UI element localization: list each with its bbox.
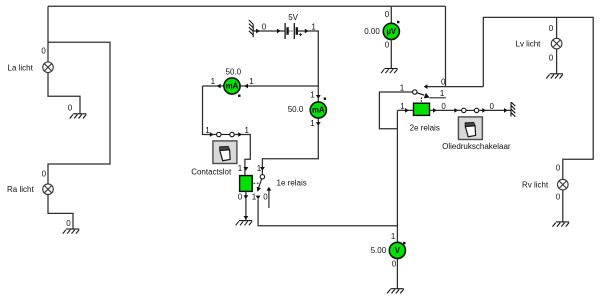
svg-text:5.00: 5.00 [371,246,387,255]
svg-text:0: 0 [41,47,46,56]
current arrow relay1 switch common [260,167,265,171]
wire to mA meter1 left [203,85,225,87]
oil switch contact left [462,108,466,112]
wire from rail down to lamp La [47,6,49,62]
svg-text:0: 0 [549,24,554,33]
icon Contactslot rocker switch [213,141,237,164]
ground under Rv licht [553,222,570,227]
svg-text:0: 0 [385,40,390,49]
svg-text:0: 0 [42,169,47,178]
current arrow relay1 coil bottom [244,195,249,199]
ground under voltmeter [387,289,404,294]
svg-text:0: 0 [392,259,397,268]
svg-text:1e relais: 1e relais [277,179,307,188]
current arrow mA meter1 left [217,84,221,89]
oil switch contact right [474,108,478,112]
relay1 coil-switch dashed link [253,182,260,184]
current arrow contactslot left [210,132,214,137]
wire meter1 right to battery node [240,85,318,87]
wire relay1 throw to voltmeter node [258,199,397,225]
svg-text:1: 1 [211,77,216,86]
oil switch closed bar [466,109,474,111]
svg-text:0: 0 [556,192,561,201]
current arrow meter2 top [316,95,321,99]
wire Rv licht to ground [562,190,564,222]
svg-text:Contactslot: Contactslot [191,167,232,176]
ground right of oil switch [511,102,515,117]
wire rail to uV meter [390,6,392,23]
svg-text:0.00: 0.00 [364,27,380,36]
svg-text:Lv licht: Lv licht [516,39,542,48]
current arrow at oil ground [504,108,508,113]
wire upper throw to right lamps rail [483,17,593,179]
pin arrow relay1 stub [267,187,272,191]
wire meter2 bottom to relay1 switch common [262,118,318,175]
icon Oliedrukschakelaar rocker switch [458,117,482,140]
current arrow at relay1 ground [244,216,249,220]
svg-text:0: 0 [262,22,267,31]
svg-text:1: 1 [400,102,405,111]
svg-text:1: 1 [311,22,316,31]
svg-text:0: 0 [549,53,554,62]
meter U4 voltmeter reading 5.00 [389,242,405,258]
current arrow oil switch left [454,108,458,113]
wire top rail down to relay2 upper throw [445,6,447,86]
wire La licht to ground [48,73,80,114]
svg-text:mA: mA [312,106,325,115]
svg-text:1: 1 [310,91,315,100]
wire relay2 coil to oil switch [430,109,462,111]
wire uV meter to ground [390,40,392,69]
terminal dot voltmeter [403,242,405,244]
svg-text:0: 0 [238,193,243,202]
svg-text:1: 1 [257,164,262,173]
relay 1e relais coil [240,176,253,192]
svg-text:1: 1 [205,126,210,135]
svg-text:V: V [395,246,401,255]
svg-text:µV: µV [386,27,396,36]
wire oil switch to ground [479,109,511,111]
ground under Lv licht [546,74,563,79]
svg-text:Ra licht: Ra licht [7,185,34,194]
wire node to voltmeter [396,110,398,242]
wire relay1 coil to ground [245,191,247,220]
current arrow oil switch right [482,108,486,113]
current arrow relay1 coil top [244,167,249,171]
current arrow at battery positive [305,29,309,34]
current arrow into battery wire [256,29,260,34]
wire top supply rail [48,5,446,7]
meter U2 milliammeter reading 50.0 [310,102,326,118]
contactslot switch closed bar [221,134,230,136]
relay2 coil-switch dashed link [420,97,422,103]
wire contactslot to relay1 coil [234,135,250,176]
ground at battery negative [249,20,253,37]
svg-text:1: 1 [391,232,396,241]
wire rail to Lv licht [556,17,558,38]
svg-text:1: 1 [252,193,257,202]
current arrow relay1 throw [256,196,261,200]
svg-text:mA: mA [226,82,239,91]
ground under La licht [70,114,87,119]
lamp Rv licht [558,179,569,190]
svg-text:0: 0 [68,103,73,112]
lamp Lv licht [551,38,562,49]
relay1 switch lever [259,179,262,188]
svg-text:Oliedrukschakelaar: Oliedrukschakelaar [442,142,511,151]
current arrow relay2 coil right [433,108,437,113]
relay2 upper throw line [426,86,483,88]
svg-text:1: 1 [249,77,254,86]
relay2 lower throw line [430,97,446,99]
terminal dot uV meter [397,21,399,23]
wire voltmeter to ground [396,258,398,288]
ground under Ra licht [63,229,80,234]
battery B1 5V [285,23,302,39]
svg-text:Rv licht: Rv licht [522,181,549,190]
wire Ra licht to ground [48,195,73,229]
wire meter1 down to contactslot switch [203,86,217,135]
current arrow contactslot right [238,132,242,137]
pin arrow relay2 upper throw [424,84,428,89]
contactslot switch contact right [230,132,234,136]
wire branch to Ra licht [48,42,110,184]
svg-text:La licht: La licht [8,63,34,72]
terminal dot meter2 [324,98,326,100]
terminal dot meter1 [238,95,240,97]
svg-text:1: 1 [245,126,250,135]
wire battery positive down to mA meter 2 [298,31,318,102]
wire node up to relay2 switch common [379,92,412,129]
svg-text:5V: 5V [288,13,298,22]
svg-text:0: 0 [441,102,446,111]
ground under relay1 coil [236,221,253,226]
relay2 switch pivot [413,90,417,94]
meter U3 microvolt meter reading 0.00 [383,23,399,39]
relay1 unused throw stub [268,190,270,208]
svg-text:0: 0 [66,219,71,228]
relay1 switch pivot [260,175,264,179]
svg-text:50.0: 50.0 [288,105,304,114]
meter U1 milliammeter reading 50.0 [224,78,240,94]
lamp Ra licht [43,184,54,195]
svg-text:0: 0 [385,10,390,19]
current arrow meter2 bottom [316,122,321,126]
current arrow at battery negative pin [277,29,281,34]
current arrow relay2 coil left [405,108,409,113]
relay 2e relais coil [414,103,430,115]
current arrow mA meter1 right [244,84,248,89]
svg-text:1: 1 [310,119,315,128]
wire node to relay2 coil [397,109,413,111]
lamp La licht [43,62,54,73]
svg-text:1: 1 [238,164,243,173]
svg-text:2e relais: 2e relais [410,123,440,132]
svg-text:0: 0 [556,163,561,172]
wire battery ground to negative plate [253,30,284,32]
svg-text:50.0: 50.0 [226,67,242,76]
svg-text:0: 0 [490,102,495,111]
svg-text:0: 0 [263,193,268,202]
wire Lv licht to ground [556,49,558,74]
svg-text:1: 1 [400,84,405,93]
contactslot switch contact left [217,132,221,136]
ground under uV meter [381,69,398,74]
relay2 switch lever [417,93,424,96]
svg-text:1: 1 [440,89,445,98]
